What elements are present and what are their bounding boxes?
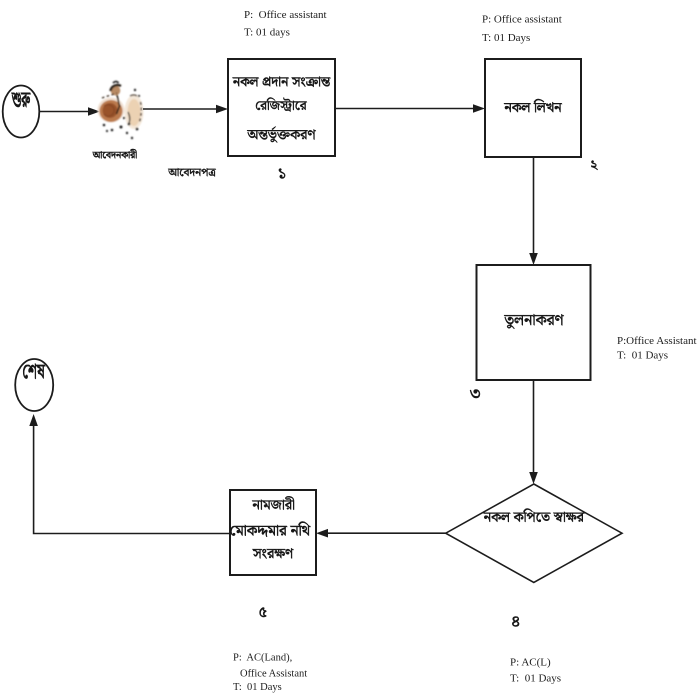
diamond label [483, 508, 584, 522]
process box 1: registry entry [228, 59, 335, 156]
box2 label [504, 99, 562, 112]
svg-text:T: 01 Days: T: 01 Days [233, 682, 282, 693]
wire box 1 to box 2 [335, 108, 474, 110]
arrowhead into box 3 [529, 253, 538, 265]
step number 3 (Bengali digit) [470, 389, 480, 397]
start terminator ellipse [3, 86, 40, 138]
wire box 5 to end ellipse (left then up) [34, 425, 230, 534]
box1 line1 [232, 77, 330, 87]
svg-text:P: AC(L): P: AC(L) [510, 657, 551, 669]
wire box 3 to decision diamond [533, 380, 535, 473]
process box 2: copy writing [485, 59, 581, 157]
svg-text:T: 01 Days: T: 01 Days [510, 673, 561, 685]
svg-text:P: Office assistant: P: Office assistant [482, 14, 562, 26]
svg-text:T: 01 Days: T: 01 Days [482, 32, 530, 44]
wire start ellipse to applicant icon [40, 111, 90, 113]
arrowhead into box 2 [473, 104, 485, 113]
decision diamond: sign the copy [446, 484, 622, 583]
wire box 2 to box 3 [533, 157, 535, 254]
wire diamond to box 5 [327, 532, 446, 534]
wire applicant icon to box 1 [143, 108, 217, 110]
svg-text:Office Assistant: Office Assistant [240, 669, 307, 680]
box5 line1 [252, 496, 294, 510]
arrowhead into applicant icon [88, 107, 100, 116]
box5 line2 [231, 522, 311, 537]
box1 line3 [247, 126, 316, 142]
svg-text:T: 01 Days: T: 01 Days [617, 350, 668, 362]
process box 3: comparison [477, 265, 591, 380]
step number 5 (Bengali digit) [260, 607, 267, 616]
svg-text:P: Office assistant: P: Office assistant [244, 9, 327, 21]
arrowhead into box 1 [216, 105, 228, 114]
arrowhead into end ellipse [29, 414, 38, 426]
label "abedonkari" (Applicant) [93, 149, 137, 158]
end terminator ellipse [15, 359, 53, 411]
svg-text:T: 01 days: T: 01 days [244, 27, 290, 39]
label "shesh" (End) inside end ellipse [23, 364, 45, 379]
step number 2 (Bengali digit) [591, 160, 598, 169]
step number 1 (Bengali digit) [279, 169, 285, 179]
label "shuru" (Start) inside start ellipse [12, 93, 31, 108]
arrowhead into diamond [529, 472, 538, 484]
svg-text:P:Office Assistant: P:Office Assistant [617, 335, 697, 347]
applicant clipart figure [98, 82, 144, 140]
arrowhead into box 5 [316, 529, 328, 538]
box3 label [504, 314, 564, 329]
box1 line2 [256, 97, 307, 111]
step number 4 (Bengali digit) [512, 617, 519, 627]
process box 5: record keeping [230, 490, 316, 575]
box5 line3 [252, 548, 293, 558]
svg-text:P: AC(Land),: P: AC(Land), [233, 653, 292, 664]
label "abedonpotro" (Application form) on wire [168, 168, 216, 177]
